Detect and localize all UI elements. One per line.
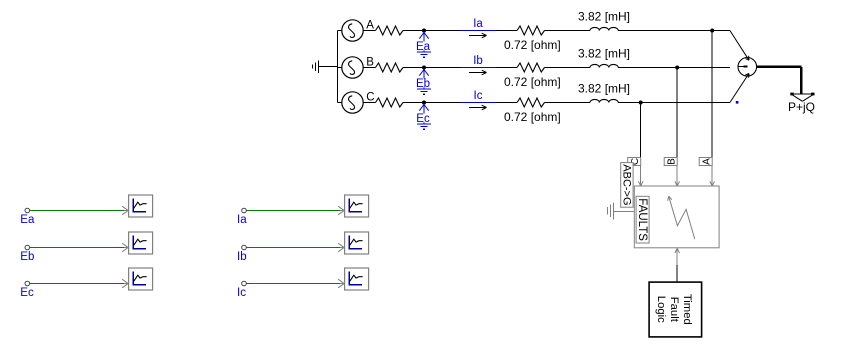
node label box A: [699, 158, 712, 166]
wire arrow into scope Ea: [122, 206, 130, 215]
svg-text:ABC->G: ABC->G: [621, 164, 633, 205]
wire Ib to scope (green): [246, 247, 340, 249]
wire ammeter to resistor phase B: [497, 67, 518, 69]
svg-text:3.82 [mH]: 3.82 [mH]: [578, 10, 630, 24]
node Ec probe: [25, 281, 30, 286]
wire arrow into scope Ic: [338, 279, 346, 288]
node Ia probe: [242, 208, 247, 213]
svg-text:Fault: Fault: [668, 297, 680, 323]
node Ib probe: [242, 245, 247, 250]
resistor source B: [376, 63, 404, 72]
svg-text:FAULTS: FAULTS: [636, 198, 648, 241]
wire resistor to inductor phase A: [545, 30, 591, 32]
svg-text:0.72 [ohm]: 0.72 [ohm]: [504, 75, 561, 89]
svg-text:0.72 [ohm]: 0.72 [ohm]: [504, 38, 561, 52]
wire source C to resistor: [363, 102, 376, 104]
wire fault tap phase C (vertical): [640, 103, 642, 158]
svg-text:0.72 [ohm]: 0.72 [ohm]: [504, 110, 561, 124]
svg-text:Ea: Ea: [20, 214, 35, 226]
node phase A tap: [710, 29, 714, 33]
scope block Ib: [345, 232, 369, 254]
voltmeter Eb: [416, 69, 431, 94]
scope block Ic: [345, 268, 369, 290]
wire fault ground: [613, 210, 634, 212]
wire Ec to scope (green): [30, 283, 125, 285]
svg-text:Ia: Ia: [473, 18, 483, 30]
svg-text:Ea: Ea: [416, 41, 431, 53]
node phase C tap: [639, 101, 643, 105]
scope block Ia: [345, 195, 369, 217]
source B (AC source circle): [342, 57, 363, 78]
load P+jQ triangle: [790, 93, 814, 102]
svg-text:Ib: Ib: [473, 55, 483, 67]
resistor 0.72 ohm phase B: [517, 63, 545, 72]
ammeter Ia (blue wire segment): [461, 30, 497, 32]
svg-text:3.82 [mH]: 3.82 [mH]: [578, 47, 630, 61]
svg-text:B: B: [666, 158, 677, 165]
node Ic probe: [242, 281, 247, 286]
wire Eb to scope (green): [30, 247, 125, 249]
svg-text:Eb: Eb: [416, 78, 430, 90]
svg-text:Timed: Timed: [681, 294, 693, 325]
wire inductor to meter phase C: [618, 102, 730, 104]
inductor 3.82 mH phase B: [590, 64, 618, 67]
resistor source C: [376, 98, 404, 107]
wire inductor to meter phase B: [618, 67, 730, 69]
wire inductor to meter phase A: [618, 30, 730, 32]
FAULTS title box: [636, 196, 649, 243]
multimeter circle: [738, 58, 757, 77]
wire Ea to scope (green): [30, 210, 125, 212]
svg-text:Ic: Ic: [237, 287, 246, 299]
FAULTS block body: [634, 186, 719, 248]
svg-text:Ia: Ia: [237, 214, 247, 226]
ground (source bus): [313, 60, 319, 73]
node Ec junction: [422, 101, 426, 105]
wire fault tap phase B (vertical): [676, 68, 678, 158]
node Eb probe: [25, 245, 30, 250]
wire source A to resistor: [363, 30, 376, 32]
wire ammeter to resistor phase C: [497, 102, 518, 104]
svg-text:A: A: [366, 20, 374, 32]
source A (AC source circle): [342, 20, 363, 41]
ammeter Ib (blue wire segment): [461, 67, 497, 69]
wire bus stub phase B: [338, 67, 343, 69]
fault lightning bolt: [668, 196, 695, 239]
wire Ia to scope (green): [246, 210, 340, 212]
wire meter output (thick): [757, 66, 802, 69]
wire resistor to inductor phase B: [545, 67, 591, 69]
source C (AC source circle): [342, 92, 363, 113]
node Ea probe: [25, 208, 30, 213]
svg-text:Ec: Ec: [20, 287, 34, 299]
node label box C: [628, 158, 641, 166]
wire fault stub phase C (gray): [638, 166, 643, 187]
wire Ic to scope (green): [246, 283, 340, 285]
ABC->G box: [621, 163, 634, 208]
current arrow Ib: [469, 70, 487, 75]
resistor source A: [376, 26, 404, 35]
wire arrow into scope Ia: [338, 206, 346, 215]
scope block Ec: [129, 268, 153, 290]
wire resistor to ammeter phase B: [403, 67, 461, 69]
svg-text:A: A: [701, 158, 712, 165]
wire fault stub phase A (gray): [710, 166, 715, 187]
wire arrow into scope Eb: [122, 243, 130, 252]
svg-text:Ic: Ic: [474, 90, 483, 102]
wire resistor to ammeter phase C: [403, 102, 461, 104]
wire phase B into meter: [738, 66, 743, 68]
node open terminal (blue square): [736, 101, 739, 104]
svg-text:Ib: Ib: [237, 251, 247, 263]
wire bus stub phase A: [338, 30, 343, 32]
svg-text:Eb: Eb: [20, 251, 34, 263]
ground (fault): [608, 202, 614, 219]
voltmeter Ec: [416, 104, 431, 129]
node Ea junction: [422, 29, 426, 33]
wire diagonal phase A into meter: [730, 31, 749, 61]
ammeter Ic (blue wire segment): [461, 102, 497, 104]
current arrow Ia: [469, 33, 487, 38]
wire arrow into scope Ib: [338, 243, 346, 252]
wire load drop (thick): [800, 67, 803, 94]
svg-text:Logic: Logic: [655, 296, 667, 323]
wire resistor to inductor phase C: [545, 102, 591, 104]
svg-text:C: C: [366, 92, 374, 104]
wire fault stub phase B (gray): [675, 166, 680, 187]
scope block Ea: [129, 195, 153, 217]
meter center dash: [743, 66, 747, 68]
inductor 3.82 mH phase C: [590, 99, 618, 102]
wire source bus: [337, 31, 339, 103]
svg-text:P+jQ: P+jQ: [788, 100, 815, 114]
wire fault tap phase A (vertical): [711, 31, 713, 158]
svg-text:B: B: [366, 57, 374, 69]
voltmeter Ea: [416, 32, 431, 57]
wire ground to bus: [319, 66, 338, 68]
node Eb junction: [422, 66, 426, 70]
wire resistor to ammeter phase A: [403, 30, 461, 32]
resistor 0.72 ohm phase C: [517, 98, 545, 107]
node phase B tap: [675, 66, 679, 70]
wire ammeter to resistor phase A: [497, 30, 518, 32]
current arrow Ic: [469, 105, 487, 110]
Timed Fault Logic box: [649, 282, 702, 337]
wire timed fault logic stub (gray): [675, 248, 680, 265]
inductor 3.82 mH phase A: [590, 27, 618, 30]
svg-text:3.82 [mH]: 3.82 [mH]: [578, 82, 630, 96]
node label box B: [664, 158, 677, 166]
wire timed fault logic to faults (black): [676, 265, 678, 282]
resistor 0.72 ohm phase A: [517, 26, 545, 35]
scope block Eb: [129, 232, 153, 254]
wire diagonal phase C into meter: [730, 73, 749, 102]
wire arrow into scope Ec: [122, 279, 130, 288]
wire source B to resistor: [363, 67, 376, 69]
svg-text:Ec: Ec: [416, 113, 430, 125]
wire bus stub phase C: [338, 102, 343, 104]
